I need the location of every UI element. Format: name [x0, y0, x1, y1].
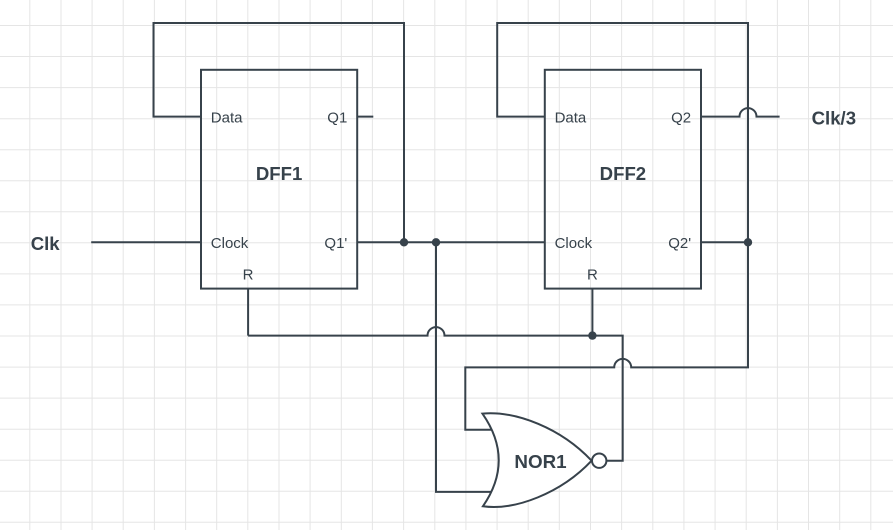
- wire Q2' output stub: [701, 241, 748, 243]
- junction Q1'-NOR input: [432, 238, 440, 246]
- wire DFF1 R pin down: [247, 289, 249, 336]
- svg-text:DFF2: DFF2: [600, 163, 646, 184]
- svg-text:Q1: Q1: [327, 110, 347, 127]
- svg-text:R: R: [587, 266, 598, 283]
- wire Q1' down to NOR1 input B: [436, 242, 495, 492]
- svg-text:Clk: Clk: [31, 233, 61, 254]
- flip-flop DFF2: [545, 70, 701, 289]
- wire Q1 output stub: [357, 116, 373, 118]
- junction DFF2 R net: [588, 331, 596, 339]
- svg-text:Q2': Q2': [668, 235, 691, 252]
- svg-text:DFF1: DFF1: [256, 163, 302, 184]
- svg-text:Q1': Q1': [324, 235, 347, 252]
- svg-text:R: R: [243, 266, 254, 283]
- svg-text:NOR1: NOR1: [514, 451, 566, 472]
- svg-text:Data: Data: [211, 110, 243, 127]
- wire DFF1 feedback Q1' to Data: [154, 23, 405, 242]
- svg-text:Data: Data: [555, 110, 587, 127]
- junction Q1'-feedback: [400, 238, 408, 246]
- wire NOR1 output to R net (with hop over vertical): [248, 327, 623, 461]
- junction Q2'-feedback: [744, 238, 752, 246]
- flip-flop DFF1: [201, 70, 357, 289]
- svg-text:Q2: Q2: [671, 110, 691, 127]
- svg-text:Clk/3: Clk/3: [812, 108, 856, 129]
- wire Q2 output to Clk/3 (with hop): [701, 108, 780, 117]
- wire Clk input to DFF1 Clock: [91, 241, 201, 243]
- wire Q1' to DFF2 Clock: [357, 241, 545, 243]
- wire DFF2 feedback Q2' to Data: [497, 23, 748, 242]
- NOR gate NOR1: [482, 413, 606, 507]
- svg-text:Clock: Clock: [555, 235, 593, 252]
- svg-text:Clock: Clock: [211, 235, 249, 252]
- wire Q2' down to NOR1 input A (with hop): [465, 242, 748, 429]
- wire DFF2 R pin down: [591, 289, 593, 336]
